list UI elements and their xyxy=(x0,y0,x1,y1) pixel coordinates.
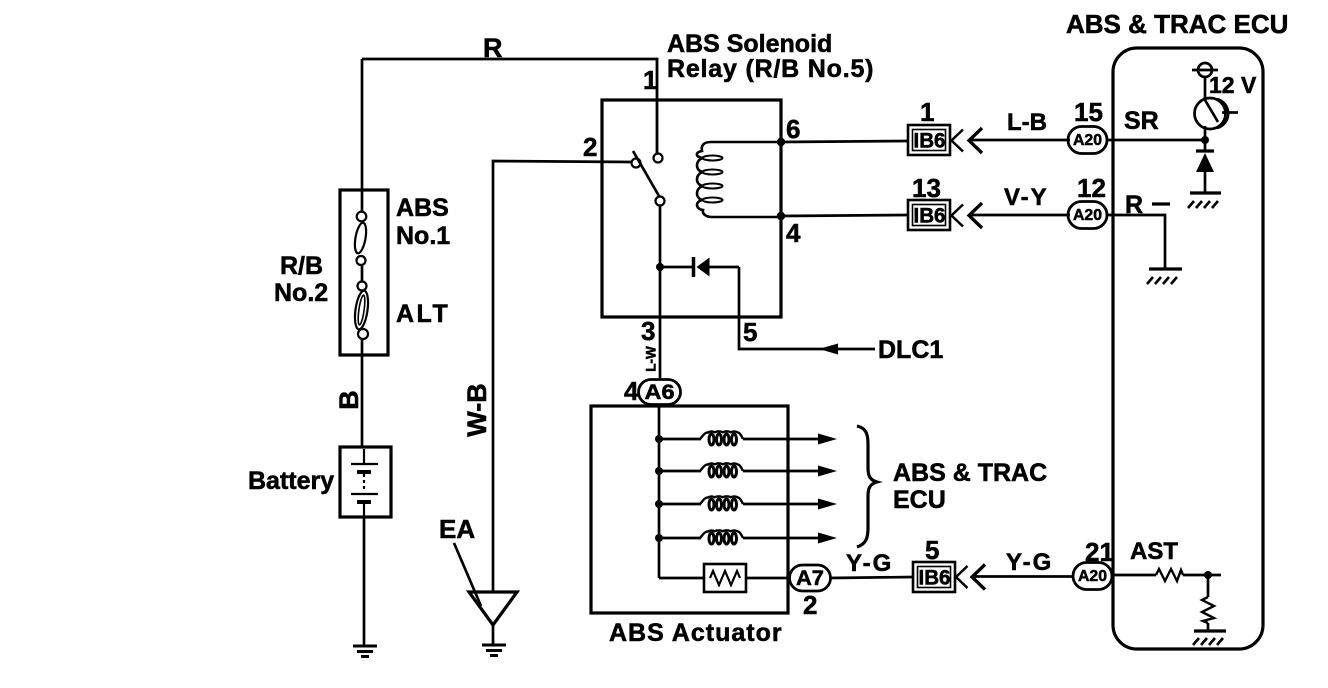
switch contact A (pin1) xyxy=(654,154,663,163)
svg-text:A6: A6 xyxy=(645,381,675,404)
svg-text:Y-G: Y-G xyxy=(846,550,893,577)
wire L-B (relay pin6 to IB6) xyxy=(781,141,908,142)
connector A20 pin12 xyxy=(1068,202,1107,229)
connector A7 xyxy=(790,565,831,591)
label ABS No.1 xyxy=(396,194,450,250)
svg-text:13: 13 xyxy=(912,173,941,203)
svg-text:12 V: 12 V xyxy=(1209,72,1257,98)
svg-text:1: 1 xyxy=(920,97,934,127)
power 12V xyxy=(1198,63,1212,77)
svg-text:L-W: L-W xyxy=(644,346,659,372)
wire R (battery feed, top horizontal) xyxy=(362,59,657,154)
label R/B No.2 xyxy=(274,252,328,307)
svg-text:AST: AST xyxy=(1130,538,1178,565)
svg-text:15: 15 xyxy=(1074,97,1103,127)
svg-text:ABS Actuator: ABS Actuator xyxy=(609,619,783,647)
ground (transistor) xyxy=(1188,193,1221,208)
fuse ALT (fusible link) xyxy=(353,282,370,340)
svg-text:No.1: No.1 xyxy=(396,222,450,250)
wire Y-G (IB6 to A20) xyxy=(973,575,1074,578)
svg-text:Y-G: Y-G xyxy=(1006,549,1053,576)
chevrons IB6 no.1 xyxy=(952,130,964,152)
connector IB6 no.13 xyxy=(908,200,950,230)
chevrons IB6 no.5 xyxy=(956,566,968,588)
transistor Q1 xyxy=(1195,98,1226,129)
svg-text:Relay (R/B No.5): Relay (R/B No.5) xyxy=(667,55,874,83)
connector A6 xyxy=(639,380,681,405)
ground (R-) xyxy=(1147,269,1182,284)
fuse box R/B No.2 xyxy=(340,190,388,355)
diode D1 (relay suppression) xyxy=(660,266,693,269)
wire V-Y (relay pin4 to IB6) xyxy=(781,215,908,216)
solenoid coil 4 xyxy=(659,530,837,544)
svg-text:5: 5 xyxy=(743,317,757,347)
svg-text:ALT: ALT xyxy=(396,300,450,328)
ECU box ABS & TRAC ECU xyxy=(1113,48,1263,649)
svg-text:ABS & TRAC: ABS & TRAC xyxy=(893,459,1047,487)
junction dots solenoids xyxy=(655,435,663,443)
svg-text:No.2: No.2 xyxy=(274,279,328,307)
wire AST xyxy=(1112,574,1156,577)
fuse ABS No.1 xyxy=(353,212,368,265)
label ABS Solenoid Relay (R/B No.5) xyxy=(667,30,874,83)
svg-text:5: 5 xyxy=(925,535,939,565)
solenoid coil 3 xyxy=(659,496,837,510)
svg-text:4: 4 xyxy=(624,376,639,406)
wire between fuses xyxy=(361,266,364,281)
wire R- internal xyxy=(1107,215,1165,269)
wire pin5 xyxy=(739,267,875,349)
svg-text:A7: A7 xyxy=(796,567,824,590)
resistor R1 (actuator) xyxy=(659,577,704,580)
wire battery to ground xyxy=(363,517,366,646)
solenoid coil 1 xyxy=(659,431,837,445)
wire Y-G (A7 to IB6) xyxy=(830,577,913,578)
svg-text:2: 2 xyxy=(583,132,597,162)
wire left vertical fusebox feed xyxy=(361,59,364,212)
wire EA pointer xyxy=(454,543,481,606)
connector A20 pin21 xyxy=(1073,563,1112,590)
connector IB6 no.1 xyxy=(908,125,950,155)
node pin6 xyxy=(777,138,785,146)
chevrons IB6 no.13 xyxy=(952,205,964,227)
svg-text:3: 3 xyxy=(641,316,655,346)
wire V-Y (IB6 to A20) xyxy=(970,214,1070,217)
svg-text:12: 12 xyxy=(1077,173,1106,203)
svg-text:21: 21 xyxy=(1085,537,1114,567)
wire SR xyxy=(1107,139,1205,142)
relay box ABS Solenoid Relay xyxy=(602,100,781,317)
svg-text:A20: A20 xyxy=(1078,568,1107,585)
switch arm xyxy=(633,151,659,196)
connector A20 pin15 xyxy=(1068,127,1107,154)
svg-text:ABS & TRAC ECU: ABS & TRAC ECU xyxy=(1066,9,1288,39)
svg-text:ABS Solenoid: ABS Solenoid xyxy=(667,30,832,58)
brace xyxy=(857,426,877,547)
arrow DLC1 xyxy=(819,344,838,355)
battery xyxy=(340,447,391,517)
junction SR xyxy=(1201,136,1209,144)
svg-text:IB6: IB6 xyxy=(919,567,951,590)
svg-text:IB6: IB6 xyxy=(914,130,946,153)
solenoid coil 2 xyxy=(659,463,837,477)
svg-text:4: 4 xyxy=(786,218,801,248)
svg-text:R/B: R/B xyxy=(280,252,323,280)
ground (AST) xyxy=(1193,631,1226,645)
svg-text:ECU: ECU xyxy=(893,486,946,514)
wire L-B (IB6 to A20) xyxy=(970,139,1070,142)
relay coil xyxy=(697,142,781,217)
svg-text:A20: A20 xyxy=(1073,132,1102,149)
wire W-B (EA ground feed to relay pin 2) xyxy=(493,161,631,592)
wire pin3 (switch common to A6) xyxy=(659,206,662,380)
junction diode tap xyxy=(656,263,664,271)
svg-text:2: 2 xyxy=(803,590,817,620)
svg-text:ABS: ABS xyxy=(396,194,449,222)
junction AST xyxy=(1204,571,1212,579)
svg-text:Battery: Battery xyxy=(248,467,334,495)
connector IB6 no.5 xyxy=(913,562,955,592)
ground (battery) xyxy=(353,646,377,657)
svg-text:V-Y: V-Y xyxy=(1004,184,1049,211)
svg-text:B: B xyxy=(334,390,364,410)
wire B (fuse box to battery) xyxy=(361,340,364,447)
switch contact C (common) xyxy=(656,197,665,206)
svg-text:SR: SR xyxy=(1124,107,1159,135)
svg-text:IB6: IB6 xyxy=(914,205,946,228)
svg-text:1: 1 xyxy=(643,65,657,95)
svg-text:DLC1: DLC1 xyxy=(878,336,943,364)
diode D2 (to ground) xyxy=(1196,149,1214,152)
actuator box ABS Actuator xyxy=(591,406,788,613)
svg-text:6: 6 xyxy=(786,114,800,144)
switch contact B (pin2) xyxy=(632,159,641,168)
svg-text:L-B: L-B xyxy=(1007,109,1047,136)
resistor R3 (vertical) xyxy=(1207,575,1210,597)
label ABS & TRAC ECU (brace) xyxy=(893,459,1047,514)
svg-text:R: R xyxy=(483,33,503,63)
svg-text:R: R xyxy=(1125,191,1143,219)
ground EA (triangle ground point) xyxy=(469,592,517,625)
svg-text:A20: A20 xyxy=(1073,207,1102,224)
resistor R2 (horizontal) xyxy=(1156,569,1183,581)
wire actuator feed xyxy=(657,404,660,407)
svg-text:EA: EA xyxy=(439,514,475,544)
svg-text:W-B: W-B xyxy=(462,383,492,436)
node pin4 xyxy=(777,212,785,220)
